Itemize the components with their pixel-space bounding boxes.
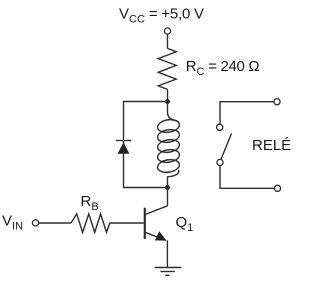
terminal VIN — [32, 220, 38, 226]
relay lower contact — [217, 159, 223, 165]
terminal relay bottom — [274, 185, 280, 191]
relay upper contact — [217, 124, 223, 130]
resistor RC — [158, 48, 176, 89]
svg-text:VCC = +5,0 V: VCC = +5,0 V — [119, 6, 204, 26]
terminal VCC — [164, 28, 170, 34]
resistor RB — [71, 214, 110, 233]
svg-text:RB: RB — [81, 193, 99, 213]
wire relay top terminal to upper contact — [220, 102, 274, 124]
node B junction dot — [165, 185, 170, 190]
node A junction dot — [165, 99, 170, 104]
wire relay lower contact to bottom terminal — [220, 166, 274, 189]
inductor relay coil — [157, 102, 181, 188]
relay switch arm — [221, 134, 232, 160]
wire VCC terminal to resistor RC — [167, 34, 169, 48]
svg-text:RC = 240 Ω: RC = 240 Ω — [186, 58, 260, 78]
svg-text:Q1: Q1 — [176, 214, 194, 234]
wire VIN terminal to resistor RB — [39, 222, 71, 224]
transistor Q1 — [145, 206, 168, 241]
wire diode anode to node B — [124, 154, 168, 188]
wire Q1 emitter to ground — [166, 240, 168, 267]
diode D1 flyback — [116, 141, 131, 154]
svg-text:RELÉ: RELÉ — [252, 137, 291, 154]
ground — [155, 268, 182, 276]
wire node B to Q1 collector — [167, 188, 169, 206]
wire node A to diode cathode — [124, 102, 168, 141]
wire RB to Q1 base — [110, 222, 144, 224]
terminal relay top — [274, 99, 280, 105]
wire RC to node A — [167, 89, 169, 101]
svg-text:VIN: VIN — [2, 213, 23, 233]
